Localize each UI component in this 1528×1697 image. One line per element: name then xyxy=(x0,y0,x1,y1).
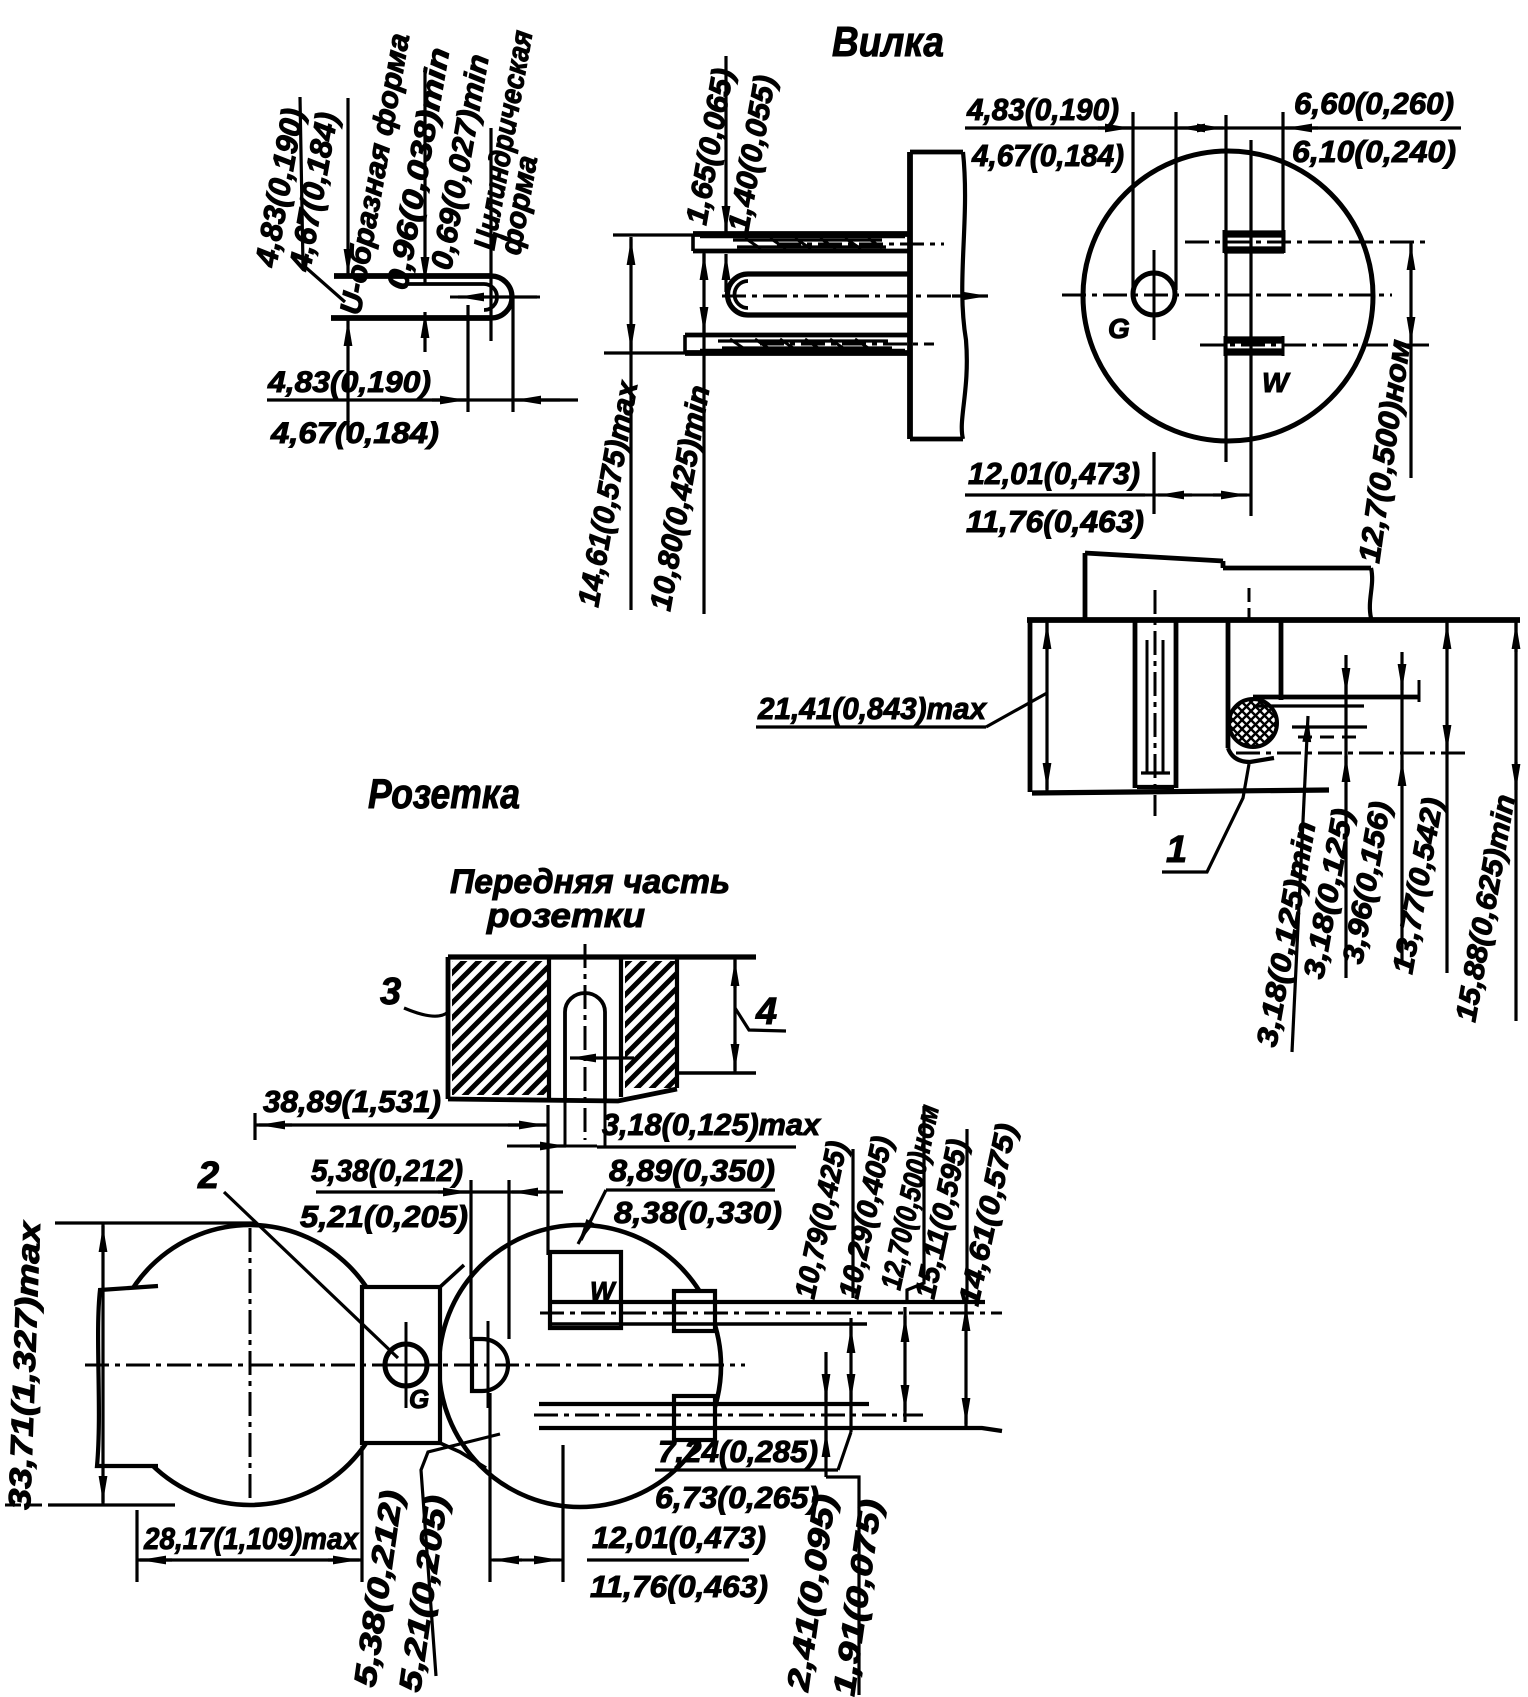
rot fraction bar 4,83/4,67 xyxy=(300,97,345,302)
rot label 3,96(0,156) xyxy=(1337,799,1397,966)
dim 3,96 arrows xyxy=(1400,666,1403,690)
svg-text:Вилка: Вилка xyxy=(832,18,944,65)
rot label 12,7(0,500)nom xyxy=(1353,338,1417,565)
dim 38,89 bar xyxy=(255,1123,548,1126)
blade2 centerline xyxy=(760,343,934,346)
blade1 bottom edge xyxy=(693,249,910,254)
pin inner cap xyxy=(735,281,749,308)
slot right wall xyxy=(619,957,623,1097)
rot label 5,21(0,205) bottom xyxy=(392,1493,454,1694)
dim 3,18 arrows xyxy=(1344,670,1347,694)
section pocket left wall xyxy=(1226,620,1231,748)
dim 12,01 socket arrows xyxy=(493,1558,522,1561)
pin top edge xyxy=(748,271,910,276)
D slot xyxy=(472,1339,508,1391)
svg-text:6,73(0,265): 6,73(0,265) xyxy=(655,1480,819,1515)
svg-text:4,67(0,184): 4,67(0,184) xyxy=(270,417,439,450)
rot label 4,67(0,184) xyxy=(282,110,344,275)
dim 28,17 bar xyxy=(137,1558,362,1561)
dim 2,41 arrow down xyxy=(824,1378,827,1400)
hatched block right xyxy=(625,961,677,1088)
rot label 1,40(0,055) xyxy=(722,73,782,234)
dim 7,24 arrows xyxy=(849,1327,852,1342)
svg-text:11,76(0,463): 11,76(0,463) xyxy=(590,1569,768,1604)
dim 0,96 upper arrow xyxy=(423,68,426,283)
dim 3,18max arrow xyxy=(530,1144,566,1147)
top dim bar xyxy=(965,126,1461,129)
dim 15,11 socket arrows xyxy=(964,1305,967,1328)
dim 38,89 arrows xyxy=(259,1123,292,1126)
svg-text:12,01(0,473): 12,01(0,473) xyxy=(592,1520,766,1555)
pin tip extension line right xyxy=(511,297,514,412)
dim line 10,80 vertical xyxy=(702,252,705,614)
blade slot upper bar1 xyxy=(1224,230,1284,237)
leader 21,41 xyxy=(986,693,1047,727)
bottom dim bar 4,83/4,67 xyxy=(267,398,578,401)
upper slot centerline xyxy=(1185,241,1431,244)
dim 5,38 bar xyxy=(316,1190,563,1193)
G pin hole xyxy=(1133,273,1175,315)
bottom dim arrow left xyxy=(515,398,560,401)
rot label 33,71(1,327)max xyxy=(2,1219,47,1510)
pin tip inner leader arrow xyxy=(458,295,537,298)
ext vertical G center long xyxy=(1152,452,1155,514)
leader 2,41 bend xyxy=(826,1477,859,1695)
svg-text:7,24(0,285): 7,24(0,285) xyxy=(658,1434,818,1469)
rot label 0,96(0,038)min xyxy=(381,45,456,292)
ext vertical 38,89 left xyxy=(253,1113,256,1140)
G hole vertical crosshair xyxy=(1153,250,1156,340)
dim 4,83 vertical lower arrow xyxy=(346,320,349,440)
rot bar 15,11/14,61 xyxy=(965,1129,968,1302)
blade2 top edge xyxy=(685,333,910,338)
dim 15,88 line xyxy=(1514,620,1517,1021)
dim 28,17 ext left xyxy=(135,1510,138,1582)
bridge mask xyxy=(362,1287,440,1443)
face horizontal centerline xyxy=(1062,294,1392,297)
dim 5,38 arrows xyxy=(438,1190,469,1193)
callout 4 leader xyxy=(735,1008,786,1031)
svg-text:G: G xyxy=(409,1384,429,1414)
dim 4 arrows xyxy=(733,960,736,988)
pin bottom edge xyxy=(748,312,910,317)
blade line dashes xyxy=(1298,736,1356,739)
dim 14,61 bottom arrow xyxy=(629,328,632,350)
leader 8,89 to W slot xyxy=(581,1190,606,1240)
bridge outline xyxy=(362,1287,440,1443)
dim 12,7 top arrow xyxy=(1409,244,1412,268)
rot label 12,70(0,500)nom xyxy=(876,1102,946,1293)
rot bar 5,38/5,21 bottom xyxy=(421,1434,500,1676)
section pocket bottom curl xyxy=(1228,748,1274,762)
underline 3,18max xyxy=(597,1145,796,1148)
section stub right break xyxy=(1370,568,1372,618)
blade1 top edge xyxy=(693,231,910,237)
main centerline with section arrow xyxy=(722,295,960,298)
svg-text:3: 3 xyxy=(380,971,401,1013)
svg-text:4,83(0,190): 4,83(0,190) xyxy=(267,366,431,399)
dim 2,41 arrow up xyxy=(824,1431,827,1458)
contact block upper xyxy=(674,1291,715,1331)
rot label 10,29(0,405) xyxy=(834,1133,900,1301)
section stub left edge xyxy=(1083,553,1088,619)
ext vertical W slot xyxy=(546,1105,549,1255)
W slot outline xyxy=(550,1252,621,1328)
blade top centerline xyxy=(540,1312,1002,1315)
pin rounded cap xyxy=(728,274,749,315)
svg-text:1: 1 xyxy=(1166,829,1187,871)
leader arrow 3,18min xyxy=(1292,716,1308,1052)
dim line 14,61 vertical xyxy=(629,237,632,610)
face plate right break line xyxy=(962,152,967,439)
front section top edge xyxy=(448,954,756,959)
rot label 2,41(0,095) xyxy=(780,1492,842,1694)
blade2 slot lines xyxy=(718,339,888,342)
inner slot arch xyxy=(565,993,605,1012)
callout 2 leader xyxy=(224,1192,398,1358)
front section right face line xyxy=(677,1071,756,1075)
ext vertical slot left xyxy=(1224,115,1227,462)
dim 28,17 arrows xyxy=(140,1558,172,1561)
cable block mask xyxy=(96,1286,158,1468)
ext line socket top xyxy=(55,1221,255,1224)
blade slot upper bar2 xyxy=(1224,246,1284,253)
blade slot lower ends xyxy=(1224,336,1227,356)
section pin bottom cap xyxy=(1137,785,1174,789)
dim 4,83 vertical upper arrow xyxy=(346,98,349,275)
rot label 14,61(0,575) xyxy=(954,1121,1024,1309)
right lobe circle xyxy=(439,1225,721,1507)
pin tip extension line cyl xyxy=(489,128,492,341)
block right edge xyxy=(675,957,679,1088)
bottom dim arrow right xyxy=(432,398,466,401)
inner slot right xyxy=(603,1012,607,1099)
G hole crosshair xyxy=(405,1322,408,1408)
svg-text:Передняя часть: Передняя часть xyxy=(450,863,730,901)
ext vertical blade center xyxy=(1249,140,1252,516)
dim 14,61 top arrow xyxy=(629,239,632,262)
ext vertical D right xyxy=(507,1180,510,1339)
svg-text:5,21(0,205): 5,21(0,205) xyxy=(300,1199,468,1234)
dim 12,01 socket verticals xyxy=(488,1393,491,1582)
dim 2,41 line upper xyxy=(824,1352,827,1477)
rot label 5,38(0,212) bottom xyxy=(347,1488,409,1689)
svg-text:3,18(0,125)max: 3,18(0,125)max xyxy=(602,1107,822,1142)
dim 12,70 socket arrows xyxy=(903,1316,906,1332)
dim 12,01 arrows xyxy=(1158,493,1192,496)
dim 33,71 arrows xyxy=(101,1226,104,1252)
svg-text:21,41(0,843)max: 21,41(0,843)max xyxy=(757,691,988,726)
dim 12,70 socket line xyxy=(903,1307,906,1422)
dim 12,01 bar below circle xyxy=(965,493,1145,496)
svg-text:12,01(0,473): 12,01(0,473) xyxy=(968,456,1140,491)
blade2 bottom edge xyxy=(685,350,910,356)
dim 28,17 ext right xyxy=(360,1446,363,1582)
face plate left edge xyxy=(907,152,913,439)
rot bar 12,70 jog xyxy=(907,1106,924,1302)
callout 1 leader xyxy=(1162,764,1249,872)
pin tip extension line left xyxy=(466,305,469,412)
underline 21,41 xyxy=(756,725,986,728)
underline 12,01 socket xyxy=(587,1558,749,1561)
ext lines slot walls xyxy=(564,1099,567,1146)
rot label 1,91(0,075) xyxy=(826,1497,888,1697)
section blade centerline stub xyxy=(1248,588,1251,618)
section pocket right wall xyxy=(1279,620,1284,700)
svg-text:Розетка: Розетка xyxy=(368,770,520,817)
dim 15,88 arrows xyxy=(1514,623,1517,652)
dim 33,71 vertical line xyxy=(101,1223,104,1505)
ext line blade1 top xyxy=(613,233,695,236)
cable block outline xyxy=(97,1286,158,1466)
dim 10,80 bottom arrow xyxy=(702,312,705,333)
dim 6,60 face arrows xyxy=(1192,126,1223,129)
pin tip detail outline top edge xyxy=(334,273,491,279)
bridge fillet top right xyxy=(440,1265,464,1287)
blade slot lower bar2 xyxy=(1225,348,1283,355)
rot label 15,88(0,625)min xyxy=(1450,792,1521,1024)
pin tip centerline xyxy=(450,296,540,299)
dim 0,96 lower arrow xyxy=(423,312,426,352)
rot label 4,83(0,190) xyxy=(248,106,310,271)
dim 12,01 socket bar xyxy=(490,1559,563,1562)
front section left edge xyxy=(446,957,451,1099)
pin tip inner sheet line xyxy=(406,282,484,286)
dim 13,77 line xyxy=(1445,620,1448,973)
underline 7,24 xyxy=(655,1468,838,1471)
dim 12,7 bottom arrow xyxy=(1409,320,1412,343)
section body bottom edge xyxy=(1032,790,1329,793)
section body left edge xyxy=(1028,620,1033,792)
blade bottom centerline xyxy=(534,1414,923,1417)
slot left wall xyxy=(547,957,551,1099)
svg-text:4,67(0,184): 4,67(0,184) xyxy=(971,138,1124,173)
svg-text:W: W xyxy=(1262,367,1291,398)
blade line middle xyxy=(1292,725,1367,728)
blade1 centerline xyxy=(777,243,944,246)
dim 21,41 arrows xyxy=(1045,623,1048,650)
svg-text:розетки: розетки xyxy=(486,897,645,935)
ext vertical G left xyxy=(1131,112,1134,290)
blade bottom line1 xyxy=(539,1402,869,1406)
svg-text:4: 4 xyxy=(755,991,777,1033)
svg-text:4,83(0,190): 4,83(0,190) xyxy=(966,92,1119,127)
front section bottom edge xyxy=(448,1089,677,1101)
blade1 hatch ticks xyxy=(745,238,882,249)
blade top line1 xyxy=(550,1300,985,1304)
section pin inner lines xyxy=(1146,640,1149,772)
D slot centerline xyxy=(487,1321,490,1408)
svg-text:38,89(1,531): 38,89(1,531) xyxy=(263,1084,441,1119)
blade1 left end cap xyxy=(691,234,695,251)
dim 3,18max line xyxy=(507,1145,597,1148)
leader 7,24 xyxy=(838,1432,851,1470)
rot label 15,11(0,595) xyxy=(910,1136,975,1301)
rot bar 10,79/10,29 xyxy=(851,1149,854,1298)
leader arrow to slot xyxy=(570,1056,634,1059)
section pin centerline xyxy=(1154,590,1157,816)
rot label 3,18(0,125)min xyxy=(1251,819,1322,1049)
rot label 0,69(0,027)min xyxy=(425,52,495,272)
svg-text:28,17(1,109)max: 28,17(1,109)max xyxy=(143,1521,359,1556)
ext line socket bottom xyxy=(48,1503,175,1506)
dim 10,80 top arrow xyxy=(702,254,705,276)
blade bottom line2 xyxy=(539,1428,1002,1431)
rot label 1,65(0,065) xyxy=(680,66,740,227)
lower slot centerline xyxy=(1200,344,1429,347)
ext vertical slot right xyxy=(1281,112,1284,252)
section pin left wall xyxy=(1133,620,1138,788)
bridge fillet bottom right xyxy=(440,1443,486,1468)
G hole socket xyxy=(385,1344,427,1386)
blade centerline section xyxy=(1236,752,1470,755)
face plate bottom edge xyxy=(910,437,963,442)
blade top line2 xyxy=(550,1322,867,1326)
pin tip detail outline bottom edge xyxy=(331,315,491,321)
svg-text:6,60(0,260): 6,60(0,260) xyxy=(1294,86,1454,121)
pin tip outer U-curl xyxy=(491,276,512,318)
rot label 14,61(0,575)max xyxy=(572,378,644,610)
plug face circle xyxy=(1083,151,1373,441)
inner slot left xyxy=(563,1012,567,1099)
rot label 3,18(0,125) xyxy=(1298,806,1359,981)
dim 13,77 arrows xyxy=(1445,623,1448,650)
callout 3 leader xyxy=(404,1008,448,1016)
svg-text:8,38(0,330): 8,38(0,330) xyxy=(614,1195,782,1230)
pin tip inner U-curl xyxy=(484,284,497,310)
svg-text:6,10(0,240): 6,10(0,240) xyxy=(1292,134,1456,169)
ext line blade2 bottom xyxy=(604,351,687,354)
svg-text:5,38(0,212): 5,38(0,212) xyxy=(311,1153,463,1188)
section body top edge xyxy=(1027,617,1520,623)
rot label 13,77(0,542) xyxy=(1387,795,1449,976)
svg-text:8,89(0,350): 8,89(0,350) xyxy=(609,1153,775,1188)
dim 7,24 line xyxy=(849,1318,852,1432)
blade1 slot lines xyxy=(733,238,882,241)
dim 4 vertical line xyxy=(733,957,736,1073)
rot label Cilindricheskaja xyxy=(468,28,539,253)
blade slot upper ends xyxy=(1223,230,1226,253)
rot label forma xyxy=(494,153,544,257)
rot label 10,79(0,425) xyxy=(790,1138,855,1301)
section pin right wall xyxy=(1174,620,1179,788)
ext vertical G right xyxy=(1174,112,1177,290)
rot label U-obraznaja forma xyxy=(334,31,416,317)
dim 21,41 vertical line xyxy=(1045,620,1048,792)
leader 1,65 blade thickness xyxy=(724,56,727,232)
section stub top edge xyxy=(1085,553,1371,568)
left lobe vertical centerline xyxy=(249,1228,252,1505)
W slot mask xyxy=(550,1252,621,1328)
left lobe circle xyxy=(110,1225,390,1505)
dim 4,83 face arrows xyxy=(1098,126,1131,129)
rot label 10,80(0,425)min xyxy=(644,383,716,613)
face plate top edge xyxy=(910,150,963,155)
svg-text:G: G xyxy=(1108,313,1130,344)
contact block lower xyxy=(674,1396,715,1440)
blade line second xyxy=(1253,704,1364,707)
blade line top xyxy=(1253,695,1419,700)
dim 15,11 socket line xyxy=(964,1300,967,1430)
blade2 hatch ticks xyxy=(730,339,871,350)
blade slot lower bar1 xyxy=(1225,336,1283,343)
socket main centerline xyxy=(85,1364,745,1367)
front section centerline vertical xyxy=(584,944,587,1140)
dim 3,18 line xyxy=(1344,655,1347,978)
hatched block left xyxy=(452,961,547,1095)
svg-text:11,76(0,463): 11,76(0,463) xyxy=(966,504,1144,539)
underline 8,89 xyxy=(606,1188,775,1191)
arrow up to blade1 bottom xyxy=(724,254,727,292)
svg-text:2: 2 xyxy=(197,1155,219,1197)
dim 12,7 vertical line xyxy=(1409,242,1412,478)
blade2 left end cap xyxy=(683,335,687,353)
dim 3,96 line xyxy=(1400,652,1403,962)
ext vertical D left xyxy=(469,1180,472,1339)
blade rolled end crosshatched xyxy=(1229,699,1277,747)
